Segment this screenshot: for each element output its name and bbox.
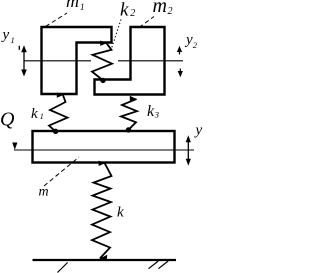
leader m2 <box>139 17 154 28</box>
datum line right (y2 level) <box>118 60 183 62</box>
svg-text:1: 1 <box>11 35 15 45</box>
spring k1 <box>49 95 68 131</box>
svg-text:k: k <box>147 103 155 120</box>
arrow y (bar) <box>186 135 191 165</box>
leader m (bar) <box>44 157 79 186</box>
svg-text:2: 2 <box>168 6 173 17</box>
leader k2 <box>111 20 121 50</box>
svg-text:2: 2 <box>193 40 198 50</box>
spring k3 bottom pin <box>126 127 131 132</box>
ground hatch 3 <box>158 261 168 269</box>
arrow y2 up <box>177 46 182 55</box>
spring k2 bottom pin <box>100 78 105 83</box>
arrow y1 <box>19 45 27 76</box>
svg-text:m: m <box>39 185 49 200</box>
arrow Q (force) <box>12 143 17 150</box>
svg-text:m: m <box>66 0 79 11</box>
svg-text:k: k <box>117 205 124 221</box>
svg-text:Q: Q <box>0 109 15 131</box>
svg-text:2: 2 <box>130 8 135 19</box>
ground hatch 2 <box>149 261 159 269</box>
svg-text:1: 1 <box>40 112 44 121</box>
svg-text:k: k <box>120 0 129 20</box>
spring k3 <box>121 99 137 130</box>
svg-text:3: 3 <box>154 110 159 120</box>
mass m2 body <box>95 27 165 95</box>
svg-text:1: 1 <box>80 2 85 12</box>
spring k2 <box>92 43 112 80</box>
spring k1 bottom pin <box>53 129 58 134</box>
leader m1 <box>46 13 68 27</box>
svg-text:k: k <box>31 106 38 122</box>
datum line left (y1 level) <box>24 60 91 62</box>
svg-text:y: y <box>184 32 193 48</box>
svg-text:y: y <box>194 123 203 139</box>
mass m bar <box>33 131 175 163</box>
spring k bottom arrow <box>99 255 107 262</box>
mass m1 body <box>42 27 112 94</box>
spring k top arrow <box>99 161 106 166</box>
spring k1 top arrow <box>57 92 64 97</box>
ground line <box>33 259 177 261</box>
svg-text:m: m <box>153 0 167 17</box>
spring k2 top arrow <box>100 41 107 46</box>
spring k <box>92 163 112 258</box>
spring k3 top arrow <box>130 96 137 101</box>
datum line through bar (y level) <box>14 149 194 151</box>
svg-text:y: y <box>1 27 10 43</box>
ground hatch 1 <box>58 263 68 273</box>
arrow y2 down <box>178 69 183 78</box>
